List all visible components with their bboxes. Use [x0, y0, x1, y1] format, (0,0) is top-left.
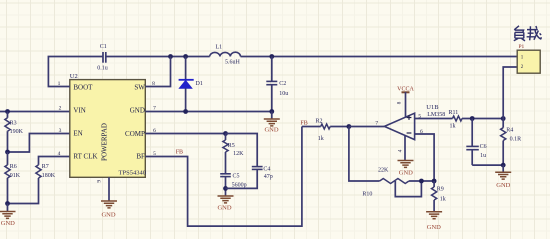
U2 pin names [73, 83, 145, 160]
svg-text:VIN: VIN [73, 106, 85, 114]
node opamp out / R2 / R10 [347, 124, 352, 129]
svg-text:22K: 22K [378, 168, 389, 174]
resistor R6 91K [5, 152, 21, 204]
svg-text:R5: R5 [228, 143, 235, 149]
wire U1B pin 5 to R11 [415, 118, 453, 120]
node COMP/R5 [223, 131, 228, 136]
svg-text:1k: 1k [440, 196, 446, 202]
node C4 return / C5 ground [223, 186, 228, 191]
ground (R9) [426, 212, 442, 231]
svg-text:GND: GND [496, 182, 510, 189]
ground (U1B pin 4) [398, 161, 414, 177]
svg-text:GND: GND [1, 220, 15, 227]
U2 pin 9 stub [108, 177, 110, 201]
node VIN/R3 junction [5, 109, 10, 114]
resistor R11 1k [449, 110, 463, 130]
svg-text:BOOT: BOOT [73, 83, 93, 91]
svg-text:RT CLK: RT CLK [73, 152, 97, 160]
svg-text:FB: FB [300, 120, 307, 126]
resistor R9 1k [432, 181, 446, 212]
node R4/C6 ground junction [501, 163, 506, 168]
svg-text:R2: R2 [316, 118, 323, 124]
power port VCCA [397, 86, 414, 117]
capacitor C5 5600p [220, 173, 246, 196]
op IC U2 TPS54340 body [70, 80, 146, 178]
svg-text:190K: 190K [10, 129, 24, 135]
svg-text:GND: GND [264, 127, 278, 134]
svg-text:SW: SW [134, 83, 145, 91]
wire COMP to C4 [226, 134, 258, 167]
svg-text:12K: 12K [233, 151, 244, 157]
resistor R3 190K [5, 112, 24, 153]
svg-text:47p: 47p [264, 174, 273, 180]
node divider ground junction [5, 201, 10, 206]
svg-text:0.1u: 0.1u [97, 66, 108, 72]
svg-text:C6: C6 [480, 144, 487, 150]
node D1/GND rail [183, 109, 188, 114]
ground (U2/D1/C2) [264, 112, 280, 134]
svg-text:POWERPAD: POWERPAD [101, 123, 109, 161]
wire R10 wiper link [395, 181, 421, 197]
svg-text:GND: GND [427, 224, 441, 231]
svg-text:GND: GND [399, 169, 413, 176]
node inverting input / R9 [432, 179, 437, 184]
wire VIN rail to U2 pin 2 [0, 111, 70, 113]
node wiper/R10 end [419, 179, 424, 184]
ground (C5/C4) [217, 196, 233, 212]
wire U2 COMP pin [145, 133, 225, 135]
svg-text:COMP: COMP [125, 130, 145, 138]
svg-text:8: 8 [397, 101, 403, 104]
svg-text:FB: FB [176, 149, 183, 155]
svg-text:5: 5 [418, 114, 421, 120]
svg-text:0.1R: 0.1R [510, 137, 522, 143]
wire U2 FB pin to feedback node [145, 127, 302, 227]
wire U2 BOOT to C1 [48, 57, 103, 87]
svg-text:U1B: U1B [426, 104, 439, 111]
resistor R2 1k [302, 118, 349, 142]
svg-text:2: 2 [59, 106, 62, 112]
svg-text:LM358: LM358 [427, 112, 445, 118]
svg-text:TPS54340: TPS54340 [119, 170, 146, 177]
svg-text:R10: R10 [362, 191, 372, 197]
svg-text:9: 9 [97, 180, 103, 183]
connector P1 [517, 44, 540, 73]
wire SW net C1 to L1 [106, 56, 210, 58]
svg-text:91K: 91K [10, 173, 21, 179]
svg-text:C2: C2 [279, 81, 286, 87]
node sense / R11 [501, 116, 506, 121]
wire SW rail to D1 cathode [185, 57, 187, 80]
wire U2 SW pin to rail [145, 57, 170, 87]
svg-text:1k: 1k [450, 123, 456, 129]
resistor R5 12K [223, 134, 244, 174]
svg-text:R3: R3 [10, 120, 17, 126]
wire EN to divider midpoint [8, 134, 70, 153]
svg-text:7: 7 [153, 106, 156, 112]
op-amp U1B LM358 [384, 104, 445, 139]
wire C4 return to ground node [226, 169, 258, 188]
ground (input divider) [0, 204, 16, 228]
svg-text:C1: C1 [100, 44, 107, 50]
svg-text:4: 4 [398, 149, 404, 152]
svg-text:D1: D1 [196, 81, 203, 87]
capacitor C4 47p [252, 167, 273, 181]
wire C6 bottom to ground node [472, 164, 503, 166]
svg-text:1k: 1k [318, 136, 324, 142]
resistor R10 22K [362, 168, 409, 198]
wire U2 GND pin to ground [145, 111, 271, 113]
svg-text:C4: C4 [263, 167, 270, 173]
node C2/GND rail [269, 109, 274, 114]
ground (U2 pin 9) [101, 201, 117, 219]
svg-text:R9: R9 [437, 186, 444, 192]
svg-text:R6: R6 [10, 164, 17, 170]
capacitor C2 10u [266, 57, 288, 112]
wire U1B pin 6 to inverting node [415, 134, 435, 181]
node R3/R6/EN junction [5, 150, 10, 155]
svg-text:4: 4 [58, 151, 61, 157]
wire R11 to sense node [462, 118, 503, 120]
wire RT/CLK to R7 [39, 157, 70, 165]
svg-text:1u: 1u [480, 153, 486, 159]
svg-text:5600p: 5600p [232, 182, 247, 188]
svg-text:3: 3 [59, 128, 62, 134]
node VOUT / C2 tap [269, 54, 274, 59]
wire D1 anode to ground rail [185, 88, 187, 111]
node C6 tap [470, 116, 475, 121]
svg-text:5.6uH: 5.6uH [225, 60, 241, 66]
wire U1B output to R2 node [349, 126, 385, 128]
wire P1 pin 2 to sense node [503, 67, 517, 119]
ground (R4/C6) [495, 165, 511, 189]
node SW rail / pin8 tap [168, 54, 173, 59]
svg-text:L1: L1 [216, 45, 223, 51]
capacitor C6 1u [466, 119, 486, 166]
wire VOUT net L1 to P1 pin 1 [241, 56, 518, 58]
wire R10 to inverting node [409, 180, 434, 182]
svg-text:R4: R4 [506, 127, 513, 133]
net/load label 负载 [514, 26, 541, 41]
wire R2 node down to R10 [349, 127, 380, 182]
svg-text:C5: C5 [233, 173, 240, 179]
svg-text:7: 7 [375, 120, 378, 126]
svg-text:R11: R11 [449, 110, 459, 116]
svg-text:EN: EN [73, 129, 82, 137]
diode D1 [179, 80, 203, 89]
node SW rail / D1 tap [183, 54, 188, 59]
svg-text:GND: GND [130, 106, 145, 114]
inductor L1 5.6uH [210, 45, 241, 66]
wire U1B pin 4 to ground [404, 136, 406, 161]
svg-text:GND: GND [217, 205, 231, 212]
svg-text:U2: U2 [70, 73, 78, 80]
svg-text:180K: 180K [42, 173, 56, 179]
resistor R4 0.1R [501, 119, 522, 166]
svg-text:BF: BF [136, 152, 145, 160]
svg-text:6: 6 [420, 129, 423, 135]
capacitor C1 0.1u [97, 44, 108, 72]
resistor R7 180K [8, 164, 56, 203]
svg-text:10u: 10u [279, 91, 288, 97]
svg-text:GND: GND [101, 212, 115, 219]
svg-text:R7: R7 [42, 164, 49, 170]
svg-text:P1: P1 [519, 44, 525, 50]
